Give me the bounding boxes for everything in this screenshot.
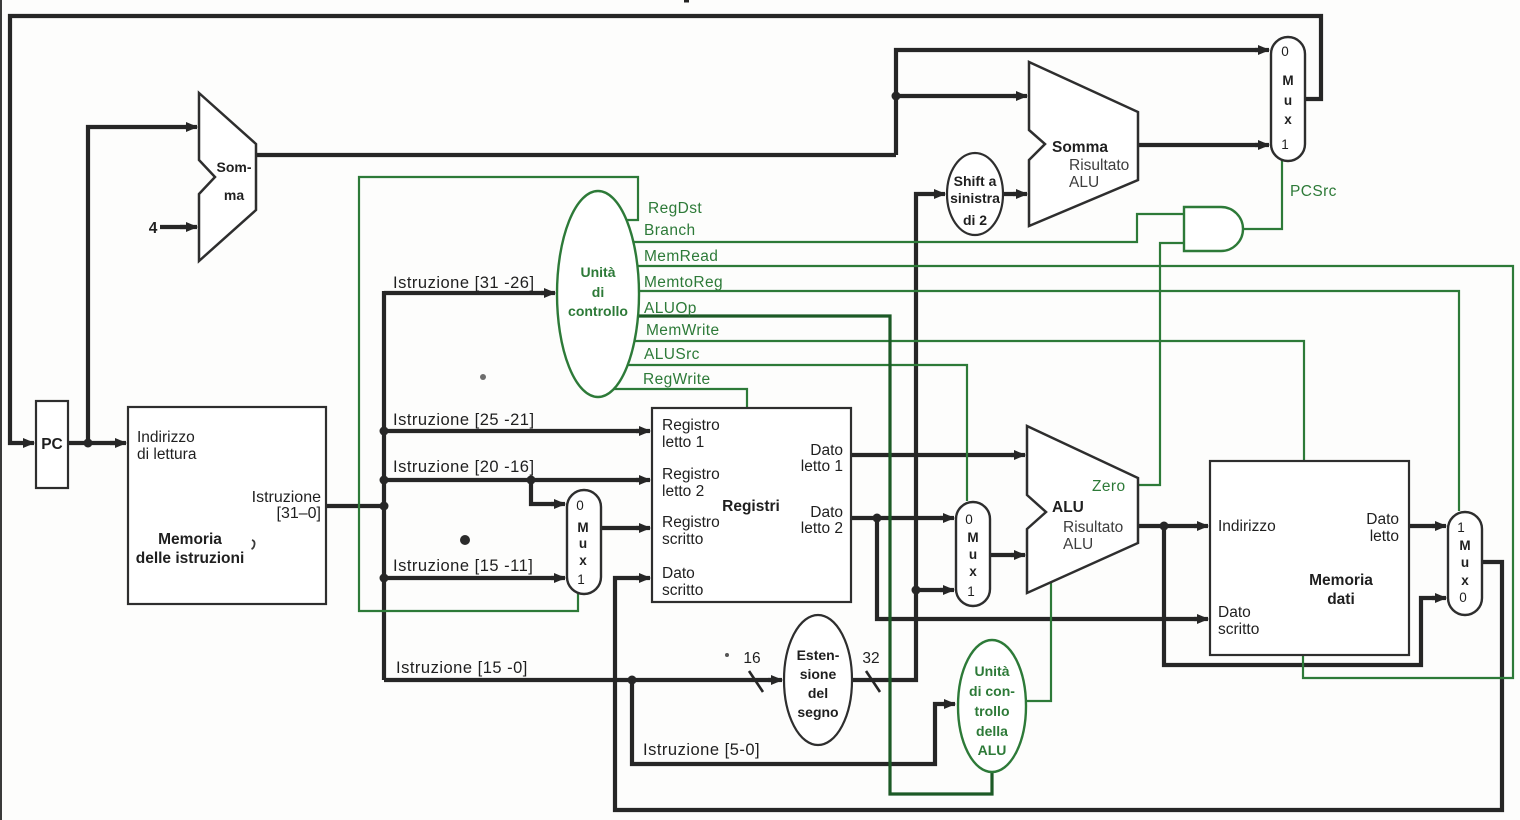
shift left 2 unit S1: Shift a sinistra di 2 <box>947 153 1003 235</box>
svg-text:sione: sione <box>800 666 837 682</box>
svg-text:0: 0 <box>1459 590 1467 605</box>
wire: Dato letto 2 branch down to Memoria dati Dato scritto <box>877 518 1204 619</box>
wire: RegDst from control unit around left to mux M2 select <box>359 177 638 611</box>
svg-text:Indirizzo: Indirizzo <box>1218 518 1276 535</box>
svg-text:scritto: scritto <box>662 531 703 548</box>
wire: ALU result to Memoria dati Indirizzo <box>1138 524 1204 528</box>
svg-text:RegDst: RegDst <box>648 200 702 217</box>
arrow into Registro letto 1 <box>636 429 650 433</box>
svg-text:Istruzione [15 -11]: Istruzione [15 -11] <box>393 557 533 575</box>
svg-text:scritto: scritto <box>1218 621 1259 638</box>
svg-text:controllo: controllo <box>568 303 628 319</box>
arrow into Dato scritto of Registri <box>636 576 650 580</box>
wire: constant 4 into adder A1 <box>160 225 193 229</box>
junction node [20-16] branch <box>527 476 536 485</box>
svg-text:ALUOp: ALUOp <box>644 300 697 317</box>
svg-text:Memoria: Memoria <box>158 531 222 548</box>
wire: mux M3 output to ALU lower input <box>990 553 1021 557</box>
svg-text:ALU: ALU <box>978 742 1007 758</box>
arrow into mux M1 input 1 <box>1255 143 1269 147</box>
svg-text:ALU: ALU <box>1069 174 1099 191</box>
svg-text:ALUSrc: ALUSrc <box>644 346 700 363</box>
AND gate G1 <box>1184 207 1243 251</box>
speckle artifact 1 <box>460 535 470 545</box>
svg-text:0: 0 <box>965 512 973 527</box>
wire: Istruzione [20-16] branch down to mux M2 input 0 <box>531 480 562 504</box>
svg-text:1: 1 <box>967 584 975 599</box>
svg-text:32: 32 <box>862 650 879 667</box>
sign extend E1: Estensione del segno <box>784 615 852 745</box>
wire: PC output to instruction memory Indirizzo <box>68 441 122 445</box>
wire: MemRead from control unit down right edge to Memoria dati bottom <box>638 266 1513 678</box>
arrow into ALU lower input <box>1011 553 1025 557</box>
svg-text:1: 1 <box>577 572 585 587</box>
arrow into mux M4 input 0 <box>1432 596 1446 600</box>
wire: ALUSrc from control unit to mux M3 select <box>628 365 967 501</box>
wire: Branch from control unit to AND gate G1 top input <box>634 214 1184 242</box>
bus width slash 16 <box>749 671 763 692</box>
arrow into shift left S1 <box>933 192 945 196</box>
junction node [15-0] / [5-0] <box>628 676 637 685</box>
svg-text:u: u <box>969 547 977 562</box>
svg-text:Registro: Registro <box>662 514 720 531</box>
svg-text:dati: dati <box>1327 591 1355 608</box>
svg-text:Istruzione: Istruzione <box>252 489 321 506</box>
svg-text:M: M <box>1282 73 1293 88</box>
arrow into adder A2 top <box>1013 94 1027 98</box>
svg-text:x: x <box>579 553 587 568</box>
svg-text:Som-: Som- <box>217 159 252 175</box>
svg-text:di con-: di con- <box>969 683 1015 699</box>
ALU <box>1027 426 1138 593</box>
arrow into PC <box>24 441 34 445</box>
svg-text:ALU: ALU <box>1052 499 1084 516</box>
svg-text:letto 2: letto 2 <box>801 520 843 537</box>
arrow 4 into adder A1 <box>180 225 197 229</box>
wire: AND gate G1 output PCSrc to mux M1 select <box>1243 159 1282 229</box>
svg-text:delle istruzioni: delle istruzioni <box>136 550 245 567</box>
junction node trunk / [20-16] <box>380 476 389 485</box>
wire: Istruzione [20-16] to Registri Registro letto 2 <box>384 478 646 482</box>
svg-text:sinistra: sinistra <box>950 190 1000 206</box>
wire: MemWrite from control unit to Memoria dati top <box>634 341 1304 460</box>
wire: Istruzione [15-0] to sign extend E1 <box>384 678 778 682</box>
svg-text:RegWrite: RegWrite <box>643 371 711 388</box>
wire: shift left S1 output to adder A2 lower input <box>1003 192 1023 196</box>
wire: Istruzione [5-0] to ALU control U2 <box>632 680 951 764</box>
svg-text:MemRead: MemRead <box>644 248 718 265</box>
svg-text:letto: letto <box>1370 528 1399 545</box>
wire: Istruzione [15-11] to mux M2 input 1 <box>384 576 562 580</box>
svg-text:u: u <box>579 536 587 551</box>
mux M1 (PC source) <box>1271 37 1305 161</box>
svg-text:del: del <box>808 685 828 701</box>
mux M2 (write register) <box>567 490 601 594</box>
wire: RegWrite from control unit to Registri top <box>614 389 747 407</box>
wire: ALUOp from control unit to ALU control U2 bottom <box>638 316 992 794</box>
wire: adder A1 output (PC+4) to vertical riser <box>256 153 896 157</box>
wire: ALU control U2 output to ALU control input <box>1026 580 1051 701</box>
arrow into sign extend E1 <box>768 678 782 682</box>
svg-text:Dato: Dato <box>662 565 695 582</box>
svg-text:letto 2: letto 2 <box>662 483 704 500</box>
arrow into adder A2 lower <box>1013 192 1027 196</box>
svg-text:Shift a: Shift a <box>954 173 997 189</box>
svg-text:MemtoReg: MemtoReg <box>644 274 723 291</box>
svg-text:trollo: trollo <box>975 703 1010 719</box>
svg-text:segno: segno <box>797 704 838 720</box>
svg-text:di: di <box>592 284 604 300</box>
junction node ALU result branch <box>1160 522 1169 531</box>
svg-text:Istruzione [31 -26]: Istruzione [31 -26] <box>393 274 535 292</box>
instruction memory: Memoria delle istruzioni <box>128 407 326 604</box>
wire: adder A2 output to mux M1 input 1 <box>1138 143 1265 147</box>
ALU control unit U2: Unita di controllo della ALU <box>958 640 1026 772</box>
arrow into Memoria dati Indirizzo <box>1194 524 1208 528</box>
svg-text:Istruzione [15 -0]: Istruzione [15 -0] <box>396 659 528 677</box>
svg-text:x: x <box>1284 112 1292 127</box>
svg-text:Dato: Dato <box>810 442 843 459</box>
svg-text:Risultato: Risultato <box>1069 157 1129 174</box>
mux M3 (ALU source) <box>956 502 990 606</box>
speckle artifact 2 <box>480 374 486 380</box>
arrow into mux M2 input 1 <box>551 576 565 580</box>
svg-text:Dato: Dato <box>810 504 843 521</box>
junction node Dato letto 2 branch <box>873 514 882 523</box>
wire: write-back from mux M4 output around bottom to Registri Dato scritto <box>615 562 1502 810</box>
wire: mux M1 output up over top to PC input <box>10 16 1321 443</box>
PC register <box>36 401 68 488</box>
svg-text:letto 1: letto 1 <box>801 458 843 475</box>
arrow into mux M1 input 0 <box>1255 48 1269 52</box>
svg-text:M: M <box>577 520 588 535</box>
svg-text:Branch: Branch <box>644 222 696 239</box>
svg-text:Zero: Zero <box>1092 478 1125 495</box>
junction node trunk / [31-0] <box>380 502 389 511</box>
svg-text:16: 16 <box>743 650 760 667</box>
svg-text:MemWrite: MemWrite <box>646 322 720 339</box>
svg-text:4: 4 <box>149 220 158 237</box>
wire: riser x=896 up and along y=50 to mux M1 input 0 <box>896 50 1265 155</box>
svg-text:M: M <box>1459 538 1470 553</box>
svg-text:di 2: di 2 <box>963 212 987 228</box>
scan page left edge <box>0 0 2 820</box>
svg-text:Unità: Unità <box>581 264 616 280</box>
adder A2 (branch target): Somma Risultato ALU <box>1029 62 1138 226</box>
svg-text:Istruzione [25 -21]: Istruzione [25 -21] <box>393 411 535 429</box>
arrow into mux M4 input 1 <box>1432 524 1446 528</box>
svg-text:Registri: Registri <box>722 498 780 515</box>
arrow into Memoria dati Dato scritto <box>1194 617 1208 621</box>
svg-text:Registro: Registro <box>662 417 720 434</box>
junction node at PC output <box>84 439 93 448</box>
svg-text:0: 0 <box>576 498 584 513</box>
svg-text:scritto: scritto <box>662 582 703 599</box>
arrow into adder A1 top <box>185 125 197 129</box>
arrow into instruction memory <box>110 441 126 445</box>
svg-text:u: u <box>1284 93 1292 108</box>
wire: instruction trunk vertical <box>382 291 386 680</box>
arrow into ALU control U2 <box>943 702 955 706</box>
wire: sign extend branch to mux M3 input 1 <box>916 588 950 592</box>
svg-text:M: M <box>967 530 978 545</box>
svg-text:u: u <box>1461 555 1469 570</box>
svg-text:1: 1 <box>1457 520 1465 535</box>
wire: Istruzione [31-26] to control unit U1 <box>384 291 551 295</box>
svg-text:[31–0]: [31–0] <box>277 505 321 522</box>
wire: sign extend output riser to shift left unit S1 <box>852 194 941 680</box>
svg-text:Indirizzo: Indirizzo <box>137 429 195 446</box>
arrow into mux M3 input 0 <box>940 516 954 520</box>
wire: Istruzione [25-21] to Registri Registro letto 1 <box>384 429 646 433</box>
svg-text:ma: ma <box>224 187 244 203</box>
wire: branch up from PC output junction to adder A1 top input <box>88 127 193 443</box>
scan tick top center <box>684 0 689 3</box>
junction node sign extend riser / mux M3 <box>912 586 921 595</box>
svg-text:Dato: Dato <box>1366 511 1399 528</box>
wire: mux M2 output to Registri Registro scritto <box>601 526 646 530</box>
wire: ALU result branch down to mux M4 input 0 <box>1164 526 1442 665</box>
junction node trunk / [25-21] <box>380 427 389 436</box>
svg-text:della: della <box>976 723 1008 739</box>
wire: Zero flag from ALU to AND gate G1 bottom input <box>1138 243 1184 485</box>
arrow into ALU top input <box>1011 453 1025 457</box>
register file: Registri <box>652 408 851 602</box>
bus width slash 32 <box>866 671 880 692</box>
svg-text:Unità: Unità <box>975 663 1010 679</box>
svg-text:x: x <box>969 564 977 579</box>
svg-text:Somma: Somma <box>1052 139 1108 156</box>
junction node trunk / [15-11] <box>380 574 389 583</box>
arrow into Registro scritto <box>636 526 650 530</box>
svg-text:Istruzione [5-0]: Istruzione [5-0] <box>643 741 760 759</box>
adder A1 (PC+4): Som-ma <box>199 93 256 261</box>
wire: instruction memory output Istruzione [31-0] to trunk <box>326 504 384 508</box>
speckle artifact 3 <box>725 653 729 657</box>
svg-text:Risultato: Risultato <box>1063 519 1123 536</box>
svg-text:Esten-: Esten- <box>797 647 840 663</box>
arrow into control unit U1 <box>541 291 555 295</box>
svg-text:ALU: ALU <box>1063 536 1093 553</box>
svg-text:1: 1 <box>1281 137 1289 152</box>
svg-text:Dato: Dato <box>1218 604 1251 621</box>
svg-text:PC: PC <box>41 436 63 453</box>
svg-text:0: 0 <box>1281 44 1289 59</box>
wire: Memoria dati Dato letto to mux M4 input 1 <box>1409 524 1442 528</box>
arrow into mux M2 input 0 <box>551 502 565 506</box>
svg-text:di lettura: di lettura <box>137 446 197 463</box>
data memory: Memoria dati <box>1210 461 1409 655</box>
wire: Registri Dato letto 1 to ALU top input <box>851 453 1021 457</box>
wire: MemtoReg from control unit to mux M4 select <box>639 291 1459 511</box>
wire: PC+4 branch into adder A2 top input <box>896 94 1023 98</box>
svg-text:Istruzione [20 -16]: Istruzione [20 -16] <box>393 458 535 476</box>
wire: Registri Dato letto 2 to mux M3 input 0 <box>851 516 950 520</box>
svg-text:Registro: Registro <box>662 466 720 483</box>
junction node PC+4 riser <box>892 92 901 101</box>
svg-text:PCSrc: PCSrc <box>1290 183 1337 200</box>
speckle comma after Memoria <box>252 540 255 549</box>
control unit U1: Unita di controllo <box>557 191 639 397</box>
mux M4 (mem to reg) <box>1448 512 1482 615</box>
arrow into mux M3 input 1 <box>940 588 954 592</box>
svg-text:Memoria: Memoria <box>1309 572 1373 589</box>
svg-text:letto 1: letto 1 <box>662 434 704 451</box>
arrow into Registro letto 2 <box>636 478 650 482</box>
svg-text:x: x <box>1461 573 1469 588</box>
